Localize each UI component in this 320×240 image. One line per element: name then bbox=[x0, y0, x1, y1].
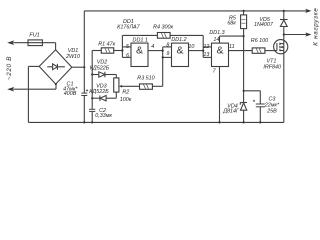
node plus junction bbox=[83, 66, 85, 68]
node DD1.2 pin9 junction bbox=[162, 56, 164, 58]
svg-text:8: 8 bbox=[166, 43, 169, 49]
svg-text:9: 9 bbox=[166, 51, 169, 57]
svg-text:Д814Г: Д814Г bbox=[222, 109, 240, 115]
wire bridge plus output bbox=[72, 66, 85, 68]
svg-text:68к: 68к bbox=[227, 21, 236, 27]
svg-text:25В: 25В bbox=[266, 108, 277, 114]
svg-text:10: 10 bbox=[188, 44, 194, 50]
svg-text:R3 510: R3 510 bbox=[137, 75, 154, 81]
node arrow output bottom bbox=[305, 32, 311, 36]
node arrow output top bbox=[305, 9, 311, 13]
node drain junction bbox=[283, 33, 285, 35]
svg-text:0,33мк: 0,33мк bbox=[95, 113, 112, 119]
svg-text:7: 7 bbox=[213, 69, 217, 75]
resistor R1 bbox=[92, 48, 122, 53]
wire DD1.1 output bbox=[148, 50, 163, 52]
svg-text:14: 14 bbox=[213, 37, 219, 43]
svg-text:&: & bbox=[216, 44, 223, 56]
node VD3 junction bbox=[91, 97, 93, 99]
wire to C3 bbox=[244, 91, 261, 104]
node C1 ground junction bbox=[83, 121, 85, 123]
svg-text:C3: C3 bbox=[268, 96, 275, 102]
wire pin7 ground bbox=[219, 67, 221, 123]
svg-text:К176ЛА7: К176ЛА7 bbox=[117, 25, 140, 31]
wire DD1.2 inputs bbox=[163, 47, 172, 86]
svg-text:DD1.3: DD1.3 bbox=[209, 30, 224, 36]
svg-text:КД522Б: КД522Б bbox=[89, 89, 109, 95]
wire VD4 drop bbox=[243, 36, 245, 102]
node C3 ground junction bbox=[259, 121, 261, 123]
svg-text:12: 12 bbox=[203, 44, 209, 50]
capacitor C2 bbox=[89, 109, 95, 122]
wire input terminal bottom bbox=[13, 84, 56, 89]
node DD1.1 input junction bbox=[121, 49, 123, 51]
node VD5 top junction bbox=[283, 10, 285, 12]
svg-text:1N4007: 1N4007 bbox=[254, 22, 274, 28]
wire to load bottom arrow bbox=[284, 34, 307, 36]
svg-text:400В: 400В bbox=[64, 91, 77, 97]
svg-text:13: 13 bbox=[203, 52, 209, 58]
node VD4 top junction bbox=[243, 90, 245, 92]
svg-text:~220 В: ~220 В bbox=[6, 56, 13, 80]
diode VD5 bbox=[280, 11, 288, 40]
svg-text:&: & bbox=[136, 44, 143, 56]
node arrow input top bbox=[7, 40, 14, 45]
wire source to ground bbox=[283, 53, 285, 122]
wire DD1.3 inputs bbox=[203, 47, 211, 58]
gate DD1.1 bbox=[131, 43, 148, 66]
node R5 bottom junction bbox=[243, 35, 245, 37]
svg-text:&: & bbox=[176, 44, 183, 56]
node DD1.2 input junction bbox=[162, 50, 164, 52]
svg-text:IRF840: IRF840 bbox=[263, 64, 281, 70]
wire bridge left corner to AC line bbox=[28, 66, 39, 122]
gate DD1.3 bbox=[212, 43, 229, 66]
wire bottom rail bbox=[28, 121, 283, 123]
wire pin14 supply bbox=[220, 36, 244, 43]
wire pin11 to R6 bbox=[229, 50, 253, 52]
svg-text:R4 300к: R4 300к bbox=[153, 25, 173, 31]
diode VD3 bbox=[92, 96, 116, 101]
svg-text:DD1.2: DD1.2 bbox=[171, 37, 186, 43]
wire input terminal top bbox=[13, 42, 28, 44]
node VD2 junction bbox=[91, 73, 93, 75]
capacitor C1 bbox=[81, 89, 88, 122]
node arrow input bottom bbox=[7, 87, 14, 92]
svg-text:R2: R2 bbox=[122, 89, 129, 95]
svg-text:4: 4 bbox=[151, 44, 154, 50]
svg-text:КД522Б: КД522Б bbox=[90, 66, 110, 72]
wire timing node riser bbox=[91, 51, 93, 110]
capacitor C3 bbox=[253, 100, 265, 123]
gate DD1.2 bbox=[172, 43, 189, 66]
node pin7 ground junction bbox=[218, 121, 220, 123]
svg-text:R1 47к: R1 47к bbox=[98, 41, 115, 47]
fuse FU1 bbox=[28, 40, 56, 46]
node bridge bottom junction bbox=[55, 83, 57, 85]
svg-text:11: 11 bbox=[229, 44, 235, 50]
wire DD1.2 output bbox=[189, 50, 204, 52]
resistor R2 variable bbox=[114, 78, 140, 98]
node R5 top junction bbox=[243, 10, 245, 12]
wire plus riser bbox=[83, 11, 85, 93]
node DD1.3 input junction bbox=[202, 50, 204, 52]
wire top rail bbox=[84, 10, 306, 12]
svg-text:6: 6 bbox=[126, 53, 129, 59]
svg-text:2W10: 2W10 bbox=[65, 54, 80, 60]
wire DD1.1 inputs bbox=[122, 35, 131, 57]
diode VD2 bbox=[92, 72, 116, 78]
resistor R5 bbox=[241, 11, 247, 36]
wire gate from R6 bbox=[265, 50, 277, 52]
resistor R4 bbox=[122, 33, 203, 58]
svg-text:К нагрузке: К нагрузке bbox=[313, 7, 320, 45]
svg-text:R6 100: R6 100 bbox=[251, 38, 268, 44]
node C2 ground junction bbox=[91, 121, 93, 123]
resistor R6 bbox=[252, 48, 265, 53]
bridge rectifier VD1 bbox=[39, 50, 72, 84]
node VD4 ground junction bbox=[243, 121, 245, 123]
svg-text:DD1.1: DD1.1 bbox=[133, 37, 148, 43]
transistor VT1 bbox=[274, 40, 288, 54]
zener VD4 bbox=[240, 103, 247, 123]
svg-text:FU1: FU1 bbox=[29, 32, 39, 38]
svg-text:100к: 100к bbox=[120, 97, 132, 103]
wire fuse to bridge top bbox=[55, 43, 57, 50]
resistor R3 bbox=[140, 84, 163, 89]
